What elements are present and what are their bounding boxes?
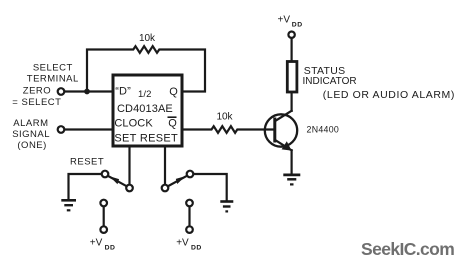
svg-text:CD4013AE: CD4013AE <box>117 103 173 115</box>
svg-text:10k: 10k <box>216 112 233 123</box>
svg-text:DD: DD <box>292 22 303 29</box>
svg-text:DD: DD <box>191 244 202 251</box>
svg-text:SeekIC.com: SeekIC.com <box>361 239 454 259</box>
svg-text:+V: +V <box>90 238 103 249</box>
svg-text:ZERO: ZERO <box>23 86 51 97</box>
svg-text:“D”: “D” <box>115 86 131 98</box>
svg-text:10k: 10k <box>139 33 156 44</box>
svg-text:+V: +V <box>176 238 189 249</box>
svg-text:1/2: 1/2 <box>138 89 152 100</box>
svg-text:SET RESET: SET RESET <box>114 132 178 144</box>
svg-text:CLOCK: CLOCK <box>114 118 153 130</box>
svg-text:STATUS: STATUS <box>304 65 346 77</box>
svg-text:DD: DD <box>105 244 116 251</box>
svg-text:Q: Q <box>168 118 177 130</box>
svg-text:= SELECT: = SELECT <box>12 97 61 108</box>
svg-text:SIGNAL: SIGNAL <box>12 129 50 140</box>
svg-text:ALARM: ALARM <box>13 118 48 129</box>
svg-text:INDICATOR: INDICATOR <box>303 76 357 87</box>
svg-text:(LED OR AUDIO ALARM): (LED OR AUDIO ALARM) <box>323 89 455 101</box>
svg-text:SELECT: SELECT <box>33 62 73 73</box>
svg-text:+V: +V <box>278 15 291 26</box>
svg-text:(ONE): (ONE) <box>17 140 46 151</box>
svg-text:RESET: RESET <box>70 156 104 167</box>
svg-text:TERMINAL: TERMINAL <box>27 74 79 85</box>
svg-text:2N4400: 2N4400 <box>307 124 340 134</box>
svg-text:Q: Q <box>169 86 178 98</box>
